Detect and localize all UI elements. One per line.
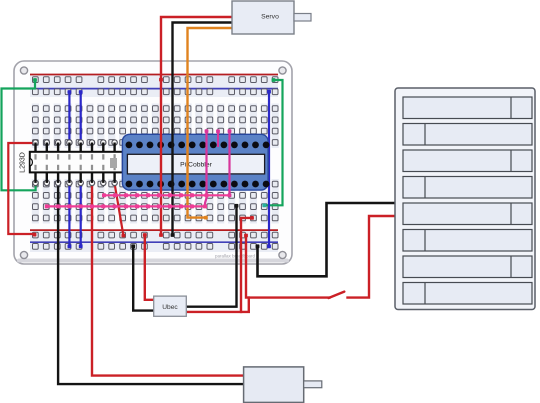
wire blue jumper bottom-left (L293D pin13 to - rail) [68,184,72,249]
IC L293D (16-pin DIP) [30,140,123,186]
wire blue jumper top-left (rail to L293D pin4) [68,90,72,141]
wire magenta M1 (row over cobbler to pink bus) [205,129,209,206]
wire blue right jumper (top - rail to bottom - rail) [267,90,271,248]
wire magenta stub M3 (cobbler top pin) [216,129,220,146]
dot black battery lead [256,244,260,248]
wire red ubec branch to switch node [241,298,249,312]
battery pack 8xAA [395,88,535,310]
wire red ubec output (Ubec right to board) [186,216,254,312]
module Ubec [154,296,187,316]
svg-text:Ubec: Ubec [162,304,178,311]
wire green right loop (top rail to row below cobbler) [262,78,282,207]
IC Pi Cobbler [122,134,269,190]
svg-text:L293D: L293D [20,152,27,173]
top power rail blue line [30,88,278,90]
wire magenta M2 (row over cobbler to pink bus) [228,129,232,197]
bottom power rail red line [30,229,278,231]
wire black servo (servo to bottom rail) [171,23,232,237]
wire orange servo signal (servo to board) [188,28,233,220]
wire red battery lead (switch to battery pack) [348,216,396,298]
bottom power rail blue line [30,241,278,243]
wire red diagonal (L293D pin9 to + rail) [113,182,126,238]
dot red ubec input [143,233,147,237]
wire black motor lead (L293D pin14 down to motor) [58,184,244,385]
svg-text:Pi Cobbler: Pi Cobbler [180,161,212,168]
wire pink bus P2 (second row below cobbler) [45,204,207,208]
wire black ubec output (Ubec right to board) [186,204,238,307]
wire red left loop (pin1 top to bottom + rail) [8,141,37,236]
wire green left loop (top rail to pin1 bottom) [2,78,38,190]
breadboard tint strips [30,75,279,253]
breadboard body [14,61,292,264]
wire black battery lead (- rail to battery pack) [258,203,396,276]
wire blue jumper bottom-right (L293D pin12 to - rail) [79,184,83,249]
module DC motor [244,367,322,403]
svg-text:parallax breadboard: parallax breadboard [215,254,256,259]
top power rail red line [30,74,278,76]
breadboard hole grid [33,77,279,249]
wire pink bus P1 (row below cobbler) [102,193,230,197]
svg-text:Servo: Servo [261,13,279,20]
wire blue jumper top-right (rail to L293D pin5) [79,90,83,141]
dot black ubec input [131,244,135,248]
wire red servo/rail jumper (servo + top rail to bottom + rail) [159,17,232,237]
module Servo [232,1,311,34]
wire red switch segment (+ rail down to switch) [244,234,329,298]
wire red motor lead (L293D pin11 down to motor) [92,184,244,376]
breadboard mounting holes [20,67,286,259]
wire red ubec input (+ rail to Ubec left) [145,235,154,300]
wire black ubec input (- rail to Ubec left) [133,246,154,310]
switch lever (open SPST) [329,292,345,298]
